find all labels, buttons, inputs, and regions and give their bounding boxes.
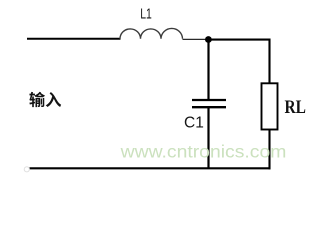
svg-text:L1: L1: [140, 7, 152, 23]
svg-text:RL: RL: [285, 97, 306, 118]
svg-text:C1: C1: [184, 114, 204, 131]
svg-text:www.cntronics.com: www.cntronics.com: [119, 142, 286, 162]
